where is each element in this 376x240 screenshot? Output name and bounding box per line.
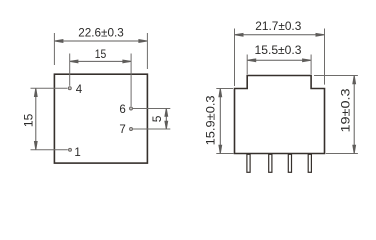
pin 6 leader to right <box>133 108 171 110</box>
svg-text:4: 4 <box>76 84 83 96</box>
pin lead 4 <box>308 154 311 172</box>
extension line pin4 column <box>69 54 71 86</box>
extension line right (22.6 dim, right) <box>146 33 148 69</box>
pin 4 dot <box>68 87 71 90</box>
svg-text:5: 5 <box>150 115 164 122</box>
dimension line 22.6±0.3 <box>55 40 147 43</box>
svg-text:7: 7 <box>119 124 125 136</box>
svg-text:19±0.3: 19±0.3 <box>340 89 352 133</box>
body outline side view <box>235 76 325 154</box>
leader line pin 1 <box>31 149 68 151</box>
extension line (19 dim, top) <box>314 75 358 77</box>
pin 7 dot <box>130 128 133 131</box>
pin lead 1 <box>247 154 250 172</box>
extension line pin6 column <box>130 54 132 107</box>
svg-text:6: 6 <box>119 104 125 116</box>
extension line (15.9 dim, top at step) <box>216 88 233 90</box>
pin 1 dot <box>69 148 72 151</box>
extension line (21.7 dim, left) <box>234 29 236 87</box>
svg-text:15.9±0.3: 15.9±0.3 <box>206 95 218 145</box>
dimension line 5 (right vertical) <box>165 109 168 129</box>
dimension line 19±0.3 <box>353 76 356 154</box>
extension line (15.5 dim, right) <box>310 55 312 75</box>
dimension line 15.9±0.3 <box>219 89 222 154</box>
pin lead 3 <box>288 154 291 172</box>
extension line (15.9 dim, bottom) <box>216 153 233 155</box>
dimension line 15 (left vertical) <box>34 88 37 149</box>
pin lead 2 <box>269 154 272 172</box>
extension line (21.7 dim, right) <box>324 29 326 85</box>
svg-text:15: 15 <box>22 113 36 127</box>
svg-text:1: 1 <box>74 147 80 159</box>
body outline left view <box>54 74 147 163</box>
dimension line 15.5±0.3 <box>248 59 311 62</box>
extension line (19 dim, bottom) <box>326 153 358 155</box>
extension line (15.5 dim, left) <box>246 55 248 75</box>
svg-text:22.6±0.3: 22.6±0.3 <box>78 28 124 40</box>
extension line left (22.6 dim, left) <box>53 33 55 65</box>
svg-text:15: 15 <box>95 49 107 61</box>
dimension line 21.7±0.3 <box>235 33 324 36</box>
pin 6 dot <box>130 107 133 110</box>
dimension line 15 (top, pin column spacing) <box>70 60 131 63</box>
svg-text:15.5±0.3: 15.5±0.3 <box>255 45 302 57</box>
pin 7 leader to right <box>133 128 171 130</box>
leader line pin 4 <box>31 87 68 89</box>
svg-text:21.7±0.3: 21.7±0.3 <box>255 21 301 33</box>
